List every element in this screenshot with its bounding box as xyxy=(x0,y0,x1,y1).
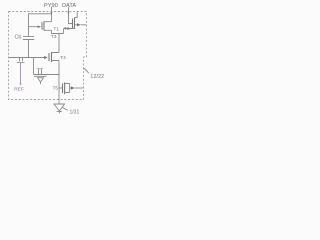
svg-text:DATA: DATA xyxy=(62,3,76,9)
svg-text:T1: T1 xyxy=(53,26,59,32)
svg-text:Cb: Cb xyxy=(15,34,22,40)
svg-text:12/22: 12/22 xyxy=(90,74,104,80)
svg-text:T5: T5 xyxy=(53,86,59,91)
svg-text:1/31: 1/31 xyxy=(70,109,80,115)
svg-text:PY90: PY90 xyxy=(44,3,58,9)
svg-text:T4: T4 xyxy=(60,55,66,61)
svg-text:T2: T2 xyxy=(64,26,70,32)
svg-text:T3: T3 xyxy=(51,34,57,40)
svg-text:REF: REF xyxy=(14,87,24,93)
